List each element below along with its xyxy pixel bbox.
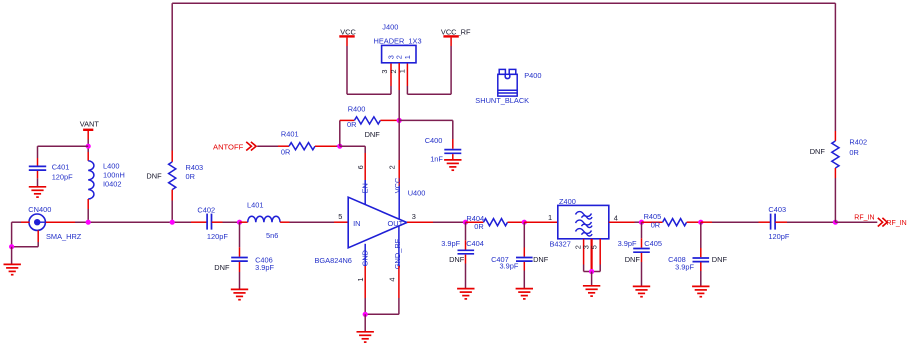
resistor R400 0R (DNF) [340, 119, 355, 121]
svg-text:4: 4 [614, 214, 618, 223]
wire: stub to ground [591, 272, 593, 286]
svg-text:100nH: 100nH [103, 171, 125, 180]
inductor L400 100nH [87, 152, 89, 161]
svg-text:P400: P400 [524, 71, 541, 80]
wire: J400 pin 2 down to U400 VCC [398, 63, 400, 90]
port RF_IN [878, 218, 887, 227]
node: Z400/R405/C405 junction [639, 220, 644, 225]
ground below U400 [357, 332, 374, 342]
svg-text:0R: 0R [474, 222, 483, 231]
wire: VCC_RF down to J400 pin 1 [450, 38, 452, 46]
connector CN400 SMA_HRZ [29, 214, 45, 230]
svg-text:3.9pF: 3.9pF [441, 239, 460, 248]
svg-text:Z400: Z400 [559, 197, 576, 206]
wire: C402 to C406 node [212, 221, 223, 223]
net VANT power symbol [83, 129, 93, 131]
svg-text:0R: 0R [186, 172, 195, 181]
node: Z400 ground junction [589, 269, 594, 274]
ground below C407 [516, 289, 533, 299]
Z400 squiggle symbols [576, 212, 593, 220]
svg-text:DNF: DNF [365, 130, 381, 139]
wire: main bus CN400 to C402 [46, 221, 75, 223]
wire: VCC down to J400 pin 3 [346, 38, 348, 46]
svg-text:2: 2 [389, 69, 398, 73]
svg-text:BGA824N6: BGA824N6 [315, 256, 352, 265]
node: R404/C407/Z400 junction [522, 220, 527, 225]
svg-text:VCC_RF: VCC_RF [441, 27, 471, 36]
ground below C405 [633, 286, 650, 296]
svg-text:L400: L400 [103, 161, 119, 170]
svg-text:3: 3 [412, 212, 416, 221]
ground below Z400 [583, 286, 600, 296]
resistor R403 0R (DNF) [171, 151, 173, 162]
svg-text:R402: R402 [849, 138, 867, 147]
node: R403 bus junction [170, 220, 175, 225]
svg-text:C403: C403 [768, 205, 786, 214]
svg-text:B4327: B4327 [550, 239, 571, 248]
capacitor C405 3.9pF (DNF shunt) [641, 222, 643, 238]
wire: stub to ground [364, 314, 366, 331]
node: RF_IN junction with loop [833, 220, 838, 225]
svg-text:0R: 0R [849, 148, 858, 157]
capacitor C403 120pF (series) [771, 214, 776, 230]
svg-text:C402: C402 [197, 205, 215, 214]
svg-text:OUT: OUT [388, 219, 404, 228]
capacitor C408 3.9pF (DNF shunt) [700, 222, 702, 248]
svg-text:SHUNT_BLACK: SHUNT_BLACK [475, 96, 529, 105]
svg-text:2: 2 [388, 165, 397, 169]
wire: U400 OUT pin 3 to R404 [407, 221, 433, 223]
wire: Z400 pin 4 to C405 node [609, 221, 635, 223]
shunt P400 SHUNT_BLACK [498, 69, 517, 96]
svg-text:J400: J400 [382, 22, 398, 31]
svg-text:ANTOFF: ANTOFF [213, 143, 244, 152]
wire: CN400 left pin loop to shield [21, 221, 29, 223]
resistor R402 0R (DNF) in loop [834, 131, 836, 141]
capacitor C401 120pF [37, 146, 39, 158]
node: C402/L401/C406 junction [237, 220, 242, 225]
svg-text:5: 5 [590, 245, 599, 249]
ground below C406 [231, 289, 248, 299]
svg-text:EN: EN [361, 183, 370, 193]
op-amp U400 BGA824N6 triangle [348, 197, 407, 248]
svg-text:3.9pF: 3.9pF [618, 239, 637, 248]
wire: junction up to R400 [339, 120, 341, 146]
svg-text:IN: IN [353, 219, 360, 228]
wire: right loop vertical down to R402 [834, 3, 836, 131]
svg-text:5n6: 5n6 [266, 231, 278, 240]
wire: top feedback loop horizontal [172, 2, 835, 4]
capacitor C407 3.9pF (DNF shunt) [523, 222, 525, 247]
Z400 bottom ground pins 2 3 5 [583, 239, 585, 265]
svg-text:VANT: VANT [80, 120, 100, 129]
ground below C404 [457, 289, 474, 299]
wire: gnd pins joining bar [365, 313, 399, 315]
svg-text:0R: 0R [281, 147, 290, 156]
wire: VANT stub down to C401 tee [87, 131, 89, 140]
svg-text:CN400: CN400 [28, 205, 51, 214]
capacitor C406 3.9pF (DNF shunt) [239, 222, 241, 247]
svg-text:0R: 0R [651, 220, 660, 229]
svg-text:120pF: 120pF [207, 232, 228, 241]
svg-text:6: 6 [356, 165, 365, 169]
svg-text:0R: 0R [347, 120, 356, 129]
svg-text:DNF: DNF [449, 255, 465, 264]
wire: ANTOFF to R401 [257, 145, 278, 147]
svg-text:VCC: VCC [340, 27, 356, 36]
wire: tee across to C401 [38, 145, 89, 147]
capacitor C404 3.9pF (DNF shunt) [465, 222, 467, 240]
node: U400 ground junction [363, 312, 368, 317]
svg-text:I0402: I0402 [103, 180, 122, 189]
svg-text:RF_IN: RF_IN [887, 220, 907, 227]
svg-text:HEADER_1X3: HEADER_1X3 [374, 36, 422, 45]
svg-text:3.9pF: 3.9pF [500, 261, 519, 270]
svg-text:5: 5 [338, 212, 342, 221]
wire: R401 to EN node [315, 145, 336, 147]
svg-text:3: 3 [380, 70, 389, 74]
svg-text:3.9pF: 3.9pF [675, 263, 694, 272]
capacitor C400 1nF [399, 119, 453, 121]
svg-text:DNF: DNF [810, 147, 826, 156]
ground below CN400 [4, 264, 21, 274]
svg-text:DNF: DNF [146, 171, 162, 180]
svg-text:C401: C401 [52, 163, 70, 172]
svg-text:1: 1 [403, 55, 412, 59]
resistor R401 0R [289, 143, 315, 150]
capacitor C402 120pF (series) [207, 214, 211, 230]
svg-text:1: 1 [548, 213, 552, 222]
svg-text:R401: R401 [281, 130, 299, 139]
svg-text:C404: C404 [466, 239, 484, 248]
svg-text:R400: R400 [348, 105, 366, 114]
svg-text:C400: C400 [425, 136, 443, 145]
svg-text:DNF: DNF [533, 255, 549, 264]
svg-text:DNF: DNF [214, 263, 230, 272]
wire: U400 GND_RF pin 4 down [398, 226, 400, 266]
wire: junction to Z400 pin 1 [524, 221, 557, 223]
svg-text:3.9pF: 3.9pF [255, 263, 274, 272]
svg-text:DNF: DNF [712, 255, 728, 264]
svg-text:RF_IN: RF_IN [854, 214, 874, 221]
node: VANT bus junction [86, 220, 91, 225]
ground below C400 [444, 160, 461, 170]
ground below C408 [692, 286, 709, 296]
node: R400/VCC-pin2 junction [397, 118, 402, 123]
node: C401 tee junction [86, 144, 91, 149]
svg-text:1nF: 1nF [430, 155, 443, 164]
svg-text:DNF: DNF [625, 255, 641, 264]
wire: U400 GND pin 1 down [364, 244, 366, 266]
inductor L401 5n6 (series) [240, 221, 248, 223]
wire: left loop vertical down to R403 [171, 3, 173, 150]
svg-text:L401: L401 [247, 200, 263, 209]
svg-text:4: 4 [388, 277, 397, 281]
wire: L401 to U400 pin 5 [290, 221, 335, 223]
SAW filter Z400 B4327 [558, 205, 609, 238]
svg-text:C405: C405 [644, 239, 662, 248]
svg-text:1: 1 [356, 277, 365, 281]
node: R405/C408 junction [698, 220, 703, 225]
svg-text:SMA_HRZ: SMA_HRZ [46, 232, 82, 241]
node: R401/R400/EN junction [337, 144, 342, 149]
wire: stub to ground [11, 247, 13, 265]
svg-text:120pF: 120pF [768, 232, 789, 241]
ground below C401 [29, 187, 46, 197]
resistor R404 0R [466, 221, 484, 223]
wire: C403 to RF_IN node [775, 221, 787, 223]
node: CN400 shield junction [9, 244, 14, 249]
svg-text:U400: U400 [408, 188, 426, 197]
wire: junction across and down to U400 EN pin [340, 145, 365, 147]
svg-text:GND_RF: GND_RF [393, 238, 402, 269]
resistor R405 0R [642, 221, 663, 223]
svg-text:120pF: 120pF [52, 173, 73, 182]
wire: R405 node to C403 [701, 221, 712, 223]
wire: node to RF_IN port [835, 221, 877, 223]
svg-text:R403: R403 [186, 163, 204, 172]
svg-text:VCC: VCC [393, 177, 402, 193]
node: OUT/R404/C404 junction [463, 220, 468, 225]
